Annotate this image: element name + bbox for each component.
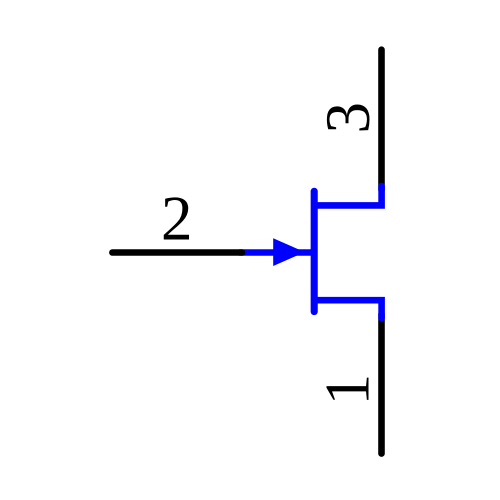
transistor Q1 drain lead: [314, 186, 381, 205]
pin 3 label "3": [313, 102, 383, 134]
svg-text:1: 1: [312, 374, 382, 406]
svg-text:3: 3: [313, 102, 383, 134]
transistor Q1 gate arrow: [273, 238, 305, 266]
pin 2 label "2": [161, 184, 193, 254]
pin 2 wire: [112, 249, 242, 256]
pin 1 wire: [378, 314, 385, 454]
gate wire (blue segment under pin 2): [240, 249, 312, 256]
transistor Q1 source lead: [314, 300, 381, 318]
svg-text:2: 2: [161, 184, 193, 254]
transistor Q1 channel bar: [311, 191, 318, 311]
pin 3 wire: [378, 50, 385, 190]
pin 1 label "1": [312, 374, 382, 406]
